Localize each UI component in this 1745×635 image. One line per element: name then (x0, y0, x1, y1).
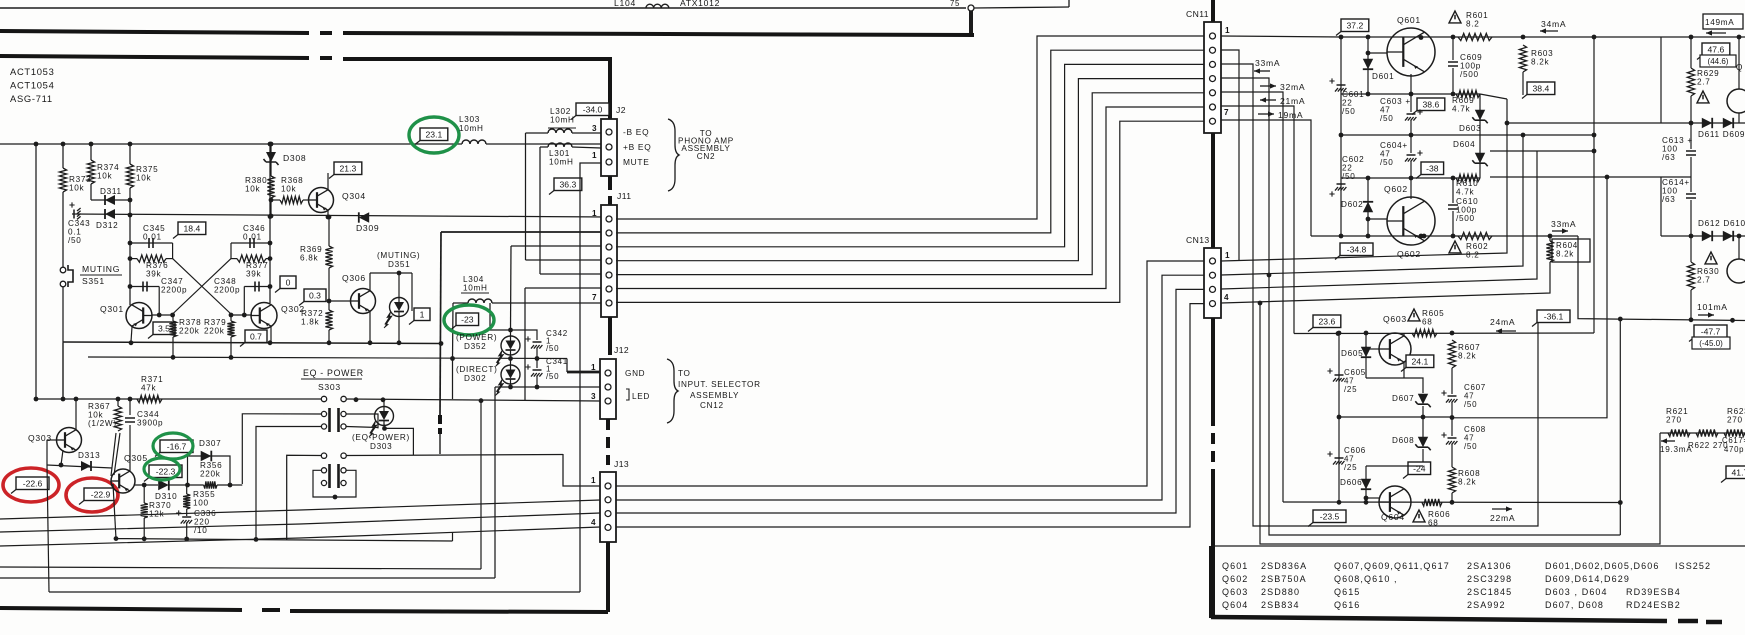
svg-text:D606: D606 (1340, 478, 1362, 487)
wire D313 row (47, 465, 112, 468)
wire left vertical x63 lower (62, 287, 64, 399)
transistor Q304 (309, 188, 334, 213)
resistor R608 (1448, 467, 1455, 493)
svg-text:D601: D601 (1372, 72, 1394, 81)
callout -45.0 (1692, 337, 1730, 349)
wire Q305 base link2 (114, 433, 120, 475)
wire R607 col (1451, 368, 1453, 394)
diode D307 (201, 451, 212, 462)
junction C345 left (128, 241, 133, 246)
arrow 33mA (1254, 70, 1270, 72)
switch S303 sec2 pole bars (330, 464, 339, 488)
wire bottom rail eq (116, 539, 453, 541)
arrow 19.3mA (1661, 440, 1675, 442)
svg-text:-B EQ: -B EQ (623, 127, 649, 137)
svg-text:Q615: Q615 (1334, 587, 1360, 597)
inductor L301 (548, 143, 572, 147)
diode D601 (1363, 59, 1373, 69)
inductor L304 (468, 299, 492, 303)
wire R376 right (166, 258, 173, 260)
diode D605 (1361, 347, 1371, 357)
svg-text:19mA: 19mA (1278, 110, 1303, 120)
wire J11 row4 riser (525, 133, 527, 260)
wire Q604 base (1366, 497, 1379, 499)
svg-text:L104: L104 (614, 0, 636, 8)
svg-text:2SC3298: 2SC3298 (1467, 574, 1512, 584)
junction top rail 600 x1691 (1689, 35, 1694, 40)
junction rail236 x1368 (1366, 234, 1371, 239)
svg-text:24mA: 24mA (1490, 317, 1515, 327)
svg-text:CN11: CN11 (1186, 9, 1209, 19)
wire CN11 pin1 right (1221, 36, 1341, 37)
voltage callout -23.5 (1313, 510, 1346, 523)
svg-text:C617=: C617= (1722, 436, 1745, 445)
wire C607 col (1451, 402, 1453, 417)
svg-text:S303: S303 (318, 382, 341, 392)
junction rail417 x1339 (1337, 415, 1342, 420)
junction row485 x230 (228, 483, 233, 488)
wire R371 rail (34, 398, 322, 400)
resistor R355 (183, 494, 190, 509)
svg-text:R356220k: R356220k (200, 461, 222, 479)
arrow 149mA (1706, 32, 1726, 34)
wire riser x1620 (1619, 319, 1621, 535)
wire rail y236 (1311, 235, 1578, 237)
svg-text:22mA: 22mA (1490, 513, 1515, 523)
wire D603 col (1479, 94, 1481, 135)
bus bottom left dash (262, 608, 280, 612)
svg-text:1: 1 (592, 209, 597, 218)
wire Q305 base link1 (111, 433, 116, 476)
junction rail94 x1453 (1451, 92, 1456, 97)
diode D310 (158, 480, 169, 491)
inductor L302 (548, 129, 572, 133)
resistor R630 (1687, 262, 1694, 290)
svg-text:-23.5: -23.5 (1320, 512, 1340, 522)
svg-text:21mA: 21mA (1280, 96, 1305, 106)
wire rail y417 (1339, 416, 1452, 418)
wire sw2 row (347, 455, 564, 456)
resistor R370 (141, 503, 148, 518)
diode D309 (359, 212, 369, 222)
capacitor C344 (125, 418, 135, 422)
svg-text:D308: D308 (283, 153, 306, 163)
svg-text:Q602: Q602 (1397, 249, 1421, 259)
svg-text:470p: 470p (1724, 445, 1744, 454)
warning triangle R630 (1705, 252, 1717, 264)
junction rail236 x1424 (1422, 234, 1427, 239)
wire Q306 collector (369, 273, 371, 291)
wire J13 pin1 right (616, 261, 1204, 486)
wire left vertical x36 (35, 144, 37, 399)
wire J11 row3 (511, 245, 601, 247)
wire CN11 pin7 right (1221, 120, 1311, 236)
wire diode row y123 (1661, 122, 1745, 124)
wire rail540 stub up (452, 532, 454, 541)
junction bottom eq x256 (254, 537, 259, 542)
wire C604 col b (1410, 161, 1412, 178)
svg-text:D612 D610: D612 D610 (1698, 219, 1745, 228)
voltage callout 23.6 (1313, 315, 1341, 328)
junction top rail x130 (128, 142, 133, 147)
switch S351 contact b (60, 281, 66, 287)
junction bottom rail x399 (397, 340, 402, 345)
wire D308 link (270, 144, 272, 176)
wire nested bottom pin4 (1269, 275, 1620, 535)
svg-text:21.3: 21.3 (340, 164, 357, 174)
wire D351 top lead (398, 273, 400, 297)
wire Q303 collector (75, 399, 77, 430)
svg-text:0: 0 (286, 278, 291, 288)
wire J11 row6 drop (524, 288, 526, 400)
svg-text:3: 3 (592, 124, 597, 133)
svg-text:D608: D608 (1392, 436, 1414, 445)
wire harness J11 pin4 to CN11 (616, 79, 1204, 261)
svg-text:149mA: 149mA (1705, 18, 1734, 27)
wire sec1 throw1a riser (242, 414, 321, 484)
arrow 21mA (1260, 99, 1276, 101)
wire sw1 to led rail (347, 399, 601, 401)
capacitor C601 (1337, 84, 1346, 86)
svg-text:J2: J2 (616, 105, 626, 115)
wire C603 col a (1410, 94, 1412, 112)
connector CN11 (1204, 22, 1221, 133)
wire x329 vertical a (328, 217, 330, 246)
capacitor C348 (255, 282, 259, 292)
wire J12 pin2 row (495, 386, 600, 388)
wire Q601 base (1368, 52, 1387, 54)
switch S351 contact a (60, 267, 66, 273)
svg-text:R378220k: R378220k (179, 318, 201, 336)
wire from node 75 to right (974, 7, 1069, 8)
junction row485 x187 (185, 483, 190, 488)
junction bottom rail x329 (327, 340, 332, 345)
switch S303 sec1 in a (321, 396, 326, 401)
transistor Q601 (1387, 28, 1435, 76)
wire C608 col (1451, 417, 1453, 436)
wire R380 bottom (270, 198, 272, 216)
junction rail177 x1607 (1605, 175, 1610, 180)
wire C601 col (1340, 37, 1342, 135)
svg-text:7: 7 (592, 293, 597, 302)
wire D303 bottom row (385, 425, 414, 456)
led D303 EQ-POWER (375, 407, 394, 426)
switch S303 sec2 in a (321, 453, 326, 458)
svg-text:2SC1845: 2SC1845 (1467, 587, 1512, 597)
wire C348 row (244, 286, 270, 288)
svg-text:47.6: 47.6 (1708, 45, 1725, 55)
junction x270 top (268, 142, 273, 147)
svg-text:33mA: 33mA (1255, 58, 1280, 68)
thick lead CN11 top (1211, 0, 1215, 22)
svg-text:LED: LED (632, 392, 650, 401)
wire D310 to R355 (169, 484, 204, 486)
junction bottom eq x144.2 (142, 536, 147, 541)
wire L302 right (572, 132, 601, 134)
switch S303 sec1 throw 1b (321, 424, 326, 429)
junction x270 rail2 (268, 214, 273, 219)
svg-text:ASSEMBLY: ASSEMBLY (690, 391, 739, 400)
wire x511 vertical (510, 246, 513, 330)
wire J13 pin2 row left (0, 500, 600, 519)
wire CN11 pin5 right (1221, 92, 1283, 502)
svg-text:D607, D608: D607, D608 (1545, 600, 1604, 610)
wire long line A (0, 567, 481, 569)
bus bottom right (1211, 617, 1667, 621)
wire rail y94 (1341, 93, 1480, 95)
wire C342 bottom (536, 348, 538, 359)
wire R603 bottom (1522, 72, 1524, 95)
wire R629 col a (1690, 37, 1692, 68)
arrow 24mA (1496, 330, 1516, 332)
junction bottom rail x270 (268, 340, 273, 345)
junction Q601 base (1366, 51, 1371, 56)
junction sw1 right (354, 397, 359, 402)
resistor R607 (1448, 340, 1455, 368)
resistor R356 (204, 481, 217, 488)
svg-text:38.4: 38.4 (1533, 84, 1550, 94)
wire D605 col (1365, 333, 1367, 378)
zener D308 (266, 152, 276, 162)
junction Q603 base (1364, 347, 1369, 352)
wire J11 row5 riser (539, 147, 541, 274)
junction R368 x271 (269, 198, 274, 203)
wire sw2 to J13 pin1 (563, 454, 600, 486)
wire R379 top (230, 315, 232, 321)
transistor Q305 (111, 469, 135, 493)
resistor R603 (1519, 45, 1526, 72)
wire GND thick (567, 371, 601, 374)
svg-text:2SA992: 2SA992 (1467, 600, 1506, 610)
wire Q609 emitter stub (1738, 113, 1740, 123)
arrow 19mA (1258, 113, 1274, 115)
svg-text:(MUTING): (MUTING) (377, 251, 420, 260)
svg-text:4: 4 (591, 518, 596, 527)
wire R604 top stub (1549, 236, 1551, 241)
junction top rail x63 (61, 142, 66, 147)
diode D313 (81, 461, 91, 471)
capacitor C342 (533, 341, 542, 343)
wire harness J11 pin7 to CN11 (616, 121, 1204, 302)
junction R367 top (116, 397, 121, 402)
connector J13 (600, 472, 616, 542)
junction D312 x130 (128, 213, 133, 218)
wire J11 row4 (526, 259, 602, 261)
wire R378 bottom (172, 337, 174, 358)
wire top rail (0, 7, 966, 9)
wire C603 col b (1410, 120, 1412, 135)
svg-text:0.3: 0.3 (309, 291, 321, 301)
transistor Q609 partial (1727, 89, 1745, 113)
wire rail236 turn down (1578, 236, 1745, 321)
wire Q304 collector (327, 173, 329, 190)
wire turning up at x1069 (1068, 0, 1070, 7)
svg-text:10mH: 10mH (459, 124, 484, 133)
svg-text:J12: J12 (614, 345, 629, 355)
svg-text:D602: D602 (1341, 200, 1363, 209)
capacitor C343 (73, 210, 75, 219)
svg-text:1: 1 (1225, 251, 1230, 260)
junction d row x1691 (1689, 121, 1694, 126)
connector J11 (601, 205, 617, 317)
switch S303 sec1 in b (341, 396, 346, 401)
arrow 32mA (1260, 85, 1276, 87)
wire L304 left drop b (452, 359, 454, 399)
svg-text:D310: D310 (155, 492, 177, 501)
svg-text:1: 1 (420, 310, 425, 320)
wire C608 col b (1451, 444, 1453, 467)
svg-text:C3482200p: C3482200p (214, 277, 240, 295)
bus bottom left segment b (290, 611, 608, 612)
capacitor C346 (250, 238, 254, 248)
wire CN11 pin3 right (1221, 64, 1538, 526)
wire Q304 base (303, 199, 309, 201)
svg-text:D611 D609: D611 D609 (1698, 130, 1745, 139)
wire Q609 collector stub (1738, 37, 1740, 89)
junction Q602 collector (1419, 234, 1424, 239)
resistor R379 (227, 321, 234, 337)
wire MUTE from J2 (580, 163, 601, 592)
svg-text:L303: L303 (459, 115, 480, 124)
junction rail135 x1523 (1521, 133, 1526, 138)
label EQ-POWER underline (301, 378, 362, 380)
inductor L104 (646, 4, 669, 8)
switch S303 sec2 throw 1b (321, 480, 326, 485)
wire harness J11 pin3 to CN11 (616, 64, 1204, 246)
wire J11 row2 drop (440, 232, 441, 415)
svg-text:Q: Q (1736, 63, 1743, 72)
annotation red circle -22.9 (66, 478, 118, 512)
svg-text:-47.7: -47.7 (1701, 327, 1721, 337)
junction bottom rail x370 (368, 340, 373, 345)
junction rail x271 (269, 214, 274, 219)
resistor R368 (280, 196, 303, 203)
svg-text:0.7: 0.7 (250, 332, 262, 342)
voltage callout -47.7 (1694, 325, 1727, 338)
wire sec1 throw1b riser (256, 427, 321, 541)
wire rail y177 (1490, 176, 1691, 178)
svg-text:1: 1 (591, 363, 596, 372)
bus line 2 dash (320, 56, 332, 60)
bracket to phono amp (668, 119, 679, 191)
junction rail135 x1341 (1339, 133, 1344, 138)
connector J2 (601, 119, 617, 176)
svg-text:Q603: Q603 (1383, 314, 1407, 324)
svg-text:D603 , D604: D603 , D604 (1545, 587, 1608, 597)
voltage callout 41.7 (1726, 466, 1745, 479)
arrow 33mA b (1552, 230, 1568, 232)
connector J12 (600, 359, 616, 419)
junction top rail x91 (89, 142, 94, 147)
junction rail333 x1452 (1450, 331, 1455, 336)
junction top rail 600 x1341 (1339, 35, 1344, 40)
wire Q602 emitter top (1410, 178, 1412, 199)
resistor R367 (114, 406, 121, 431)
junction top rail 600 x1368 (1366, 35, 1371, 40)
zener D603 (1475, 110, 1485, 120)
junction D313 row (59, 463, 64, 468)
junction rail94 x1411 (1409, 92, 1414, 97)
wire left vertical x63 upper (62, 144, 64, 168)
junction Q301 base a (157, 313, 162, 318)
label L302 underline (548, 127, 576, 129)
svg-text:D609,D614,D629: D609,D614,D629 (1545, 574, 1630, 584)
wire x329 vertical b (328, 268, 330, 310)
svg-text:Q304: Q304 (342, 191, 366, 201)
wire bottom rail left circuit (63, 342, 441, 344)
wire R630 col b (1690, 290, 1692, 320)
wire Q301 emitter (131, 327, 132, 342)
wire J13 pin4 row left (0, 527, 600, 546)
svg-text:1: 1 (591, 476, 596, 485)
wire J13 pin3 right (616, 289, 1204, 513)
voltage callout -36.1 (1537, 310, 1570, 323)
wire left vertical x91 low (90, 184, 92, 200)
voltage callout -22.3 (149, 465, 182, 478)
arrow 101mA (1698, 314, 1714, 316)
junction R376 left (128, 256, 133, 261)
wire rail y135 (1341, 134, 1480, 136)
wire Q603 base (1366, 348, 1379, 350)
wire Q603 emitter (1403, 362, 1405, 378)
capacitor C609 (1448, 62, 1458, 66)
annotation red circle -22.6 (3, 468, 59, 502)
junction x329 rail2 (327, 215, 332, 220)
junction rail502 x1339 (1337, 500, 1342, 505)
svg-text:RD39ESB4: RD39ESB4 (1626, 587, 1681, 597)
svg-text:75: 75 (950, 0, 960, 8)
bracket to input selector (667, 359, 678, 423)
warning triangle R601 (1449, 11, 1461, 23)
annotation green circle -16.7 (153, 433, 193, 459)
wire R355 top (186, 485, 188, 494)
warning triangle R606 (1413, 510, 1425, 522)
voltage callout 0 right (280, 276, 296, 289)
wire C336 bottom (186, 523, 188, 540)
svg-text:Q608,Q610 ,: Q608,Q610 , (1334, 574, 1398, 584)
wire D352 top (510, 330, 512, 336)
wire sec1 throw2a link (347, 414, 379, 428)
svg-text:S351: S351 (82, 276, 105, 286)
svg-text:41.7: 41.7 (1732, 468, 1745, 478)
wire CN13 row2 right (1221, 135, 1523, 275)
wire CN13 row1 right (1221, 99, 1507, 261)
wire C610 col a (1452, 178, 1454, 203)
wire Q303 base row (47, 439, 57, 441)
svg-text:-22.3: -22.3 (156, 467, 176, 477)
diode D602 (1363, 202, 1373, 212)
wire row485 end (217, 484, 242, 486)
junction top rail 600 x1594 (1592, 35, 1597, 40)
junction rail94 x1368 (1366, 92, 1371, 97)
junction x1507 y123 (1505, 121, 1510, 126)
wire riser x1594 (1593, 37, 1595, 333)
svg-text:18.4: 18.4 (184, 224, 201, 234)
wire Q603 top rail (1294, 332, 1594, 335)
resistor R610 (1456, 174, 1480, 181)
svg-text:-23: -23 (461, 315, 474, 325)
junction d612 row x1691 (1689, 234, 1694, 239)
svg-text:-36.1: -36.1 (1544, 312, 1564, 322)
capacitor C610 (1448, 205, 1458, 209)
wire R608 col (1451, 493, 1453, 502)
svg-text:ISS252: ISS252 (1675, 561, 1711, 571)
switch S303 sec1 pole bars (330, 408, 339, 432)
wire long line C (49, 591, 580, 593)
wire x440 tail (439, 434, 441, 454)
svg-text:24.1: 24.1 (1412, 357, 1429, 367)
junction rail178 x1368 (1366, 176, 1371, 181)
